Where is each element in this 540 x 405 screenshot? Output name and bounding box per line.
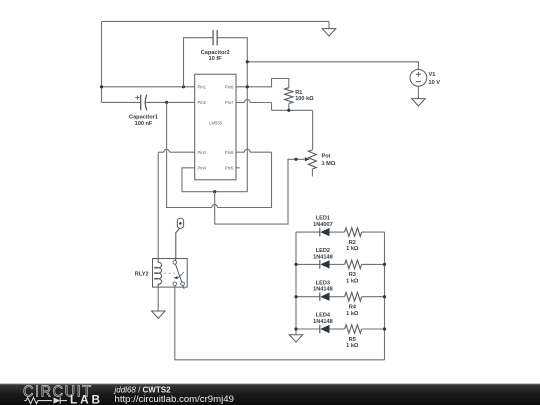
svg-text:Pin6: Pin6 [225, 150, 234, 155]
svg-text:Pin1: Pin1 [198, 84, 207, 89]
svg-text:RLY2: RLY2 [135, 271, 149, 277]
svg-text:1 kΩ: 1 kΩ [346, 311, 359, 317]
svg-text:1N4148: 1N4148 [313, 319, 333, 325]
svg-text:LED3: LED3 [316, 280, 330, 286]
svg-text:Pot: Pot [322, 154, 331, 160]
svg-text:R3: R3 [349, 272, 356, 278]
svg-text:1 kΩ: 1 kΩ [346, 246, 359, 252]
svg-text:1 MΩ: 1 MΩ [322, 161, 336, 167]
svg-text:100 nF: 100 nF [135, 121, 153, 127]
svg-text:R1: R1 [295, 90, 302, 96]
svg-text:R2: R2 [349, 240, 356, 246]
svg-text:10 V: 10 V [429, 80, 441, 86]
svg-text:1N4148: 1N4148 [313, 287, 333, 293]
svg-text:Pin5: Pin5 [225, 165, 234, 170]
svg-text:R4: R4 [349, 305, 357, 311]
svg-text:Pin8: Pin8 [225, 84, 234, 89]
svg-text:R5: R5 [349, 337, 356, 343]
svg-text:LM555: LM555 [209, 120, 222, 125]
svg-text:Pin4: Pin4 [198, 165, 207, 170]
svg-text:Pin3: Pin3 [198, 150, 207, 155]
svg-text:LED4: LED4 [316, 313, 331, 319]
svg-text:1 kΩ: 1 kΩ [346, 279, 359, 285]
svg-text:10 fF: 10 fF [209, 56, 223, 62]
svg-text:LED2: LED2 [316, 248, 330, 254]
svg-text:LED1: LED1 [316, 216, 330, 222]
svg-text:Pin2: Pin2 [198, 100, 207, 105]
svg-text:1 kΩ: 1 kΩ [346, 343, 359, 349]
svg-text:Capacitor1: Capacitor1 [129, 115, 158, 121]
svg-text:Pin7: Pin7 [225, 100, 234, 105]
svg-text:http://circuitlab.com/cr9mj49: http://circuitlab.com/cr9mj49 [115, 394, 234, 405]
svg-text:1N4007: 1N4007 [313, 222, 333, 228]
svg-text:Capacitor2: Capacitor2 [201, 50, 230, 56]
svg-text:100 kΩ: 100 kΩ [295, 96, 314, 102]
svg-text:V1: V1 [429, 72, 436, 78]
svg-text:1N4148: 1N4148 [313, 254, 333, 260]
svg-text:LAB: LAB [70, 393, 103, 405]
